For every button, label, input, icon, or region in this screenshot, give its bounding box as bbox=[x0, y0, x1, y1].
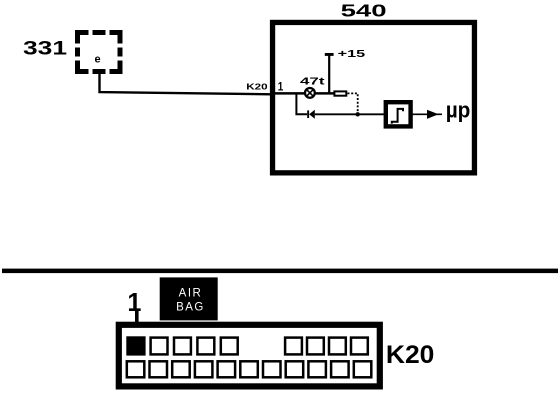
svg-text:AIR: AIR bbox=[179, 287, 203, 299]
svg-text:+15: +15 bbox=[338, 48, 366, 60]
svg-text:BAG: BAG bbox=[176, 301, 205, 313]
svg-text:331: 331 bbox=[23, 38, 67, 60]
svg-text:K20: K20 bbox=[386, 341, 435, 369]
svg-text:1: 1 bbox=[127, 289, 141, 317]
svg-text:µp: µp bbox=[446, 98, 471, 123]
svg-text:540: 540 bbox=[341, 0, 387, 20]
svg-text:1: 1 bbox=[278, 82, 284, 94]
svg-text:e: e bbox=[95, 54, 101, 66]
svg-text:K20: K20 bbox=[246, 83, 268, 92]
svg-text:47t: 47t bbox=[300, 75, 325, 87]
